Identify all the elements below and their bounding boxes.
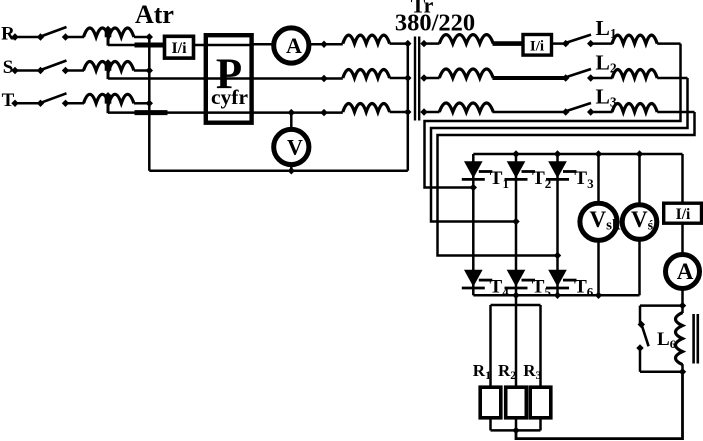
inductor L3 coil [612,104,657,113]
wire load switch lower [639,348,642,372]
wire L2 out [657,77,687,80]
label T6 [574,277,594,300]
node resistor bus bottom [512,427,519,434]
wire sec3 to switch [493,111,566,114]
voltmeter Vsk circle [580,203,621,240]
label R3 [523,361,541,382]
svg-text:V: V [287,135,303,160]
label L3 [596,85,617,110]
node T switch out [62,100,69,107]
wire load switch upper [639,306,642,324]
wire row1 through P box [206,44,252,47]
svg-text:R: R [1,24,15,45]
node sec3 switch out [587,108,594,115]
node T bus junction [146,100,153,107]
label Tr [411,0,434,18]
svg-text:Atr: Atr [135,0,174,29]
wire phase 2 return bus [431,78,688,222]
wire resistor R2 top lead [515,305,518,388]
transformer Tr secondary winding 3 [439,103,493,112]
node bottom rail c2 [512,292,519,299]
switch load blade [642,326,649,346]
svg-text:380/220: 380/220 [395,10,475,37]
wire S input [15,69,41,72]
transformer Tr primary winding 1 [343,35,390,44]
node bridge input 2 [512,218,519,225]
switch sec2 blade [567,69,592,77]
transformer Tr primary winding 2 [343,70,390,79]
wire R wiper thick segment [135,43,166,48]
switch ST blade [42,93,67,102]
wire phase 1 return bus [425,44,681,188]
wire load coil bottom stub [681,364,684,372]
wire I/i to P box [194,44,206,47]
label Atr [135,0,174,29]
inductor Lo core [694,314,698,364]
wire L1 out [657,42,680,45]
transformer Tr secondary winding 2 [439,69,493,78]
resistor R1 box [480,387,501,418]
node load bottom [679,368,686,375]
node secondary 3 start [420,108,427,115]
switch SR blade [42,27,67,36]
wire row1 P to ammeter [252,43,274,46]
current transformer U2 I/i box [523,35,552,56]
wire row3 through P box [206,111,252,114]
node sec2 switch out [587,74,594,81]
wire sec1 stub [424,42,440,45]
node sec3 switch in [562,108,569,115]
wire primary 3 to neutral [390,111,408,114]
wire row1 ammeter to coil [309,43,343,46]
wire R coil end to bus [134,36,149,39]
wire resistor R3 bottom lead [539,417,542,430]
transformer Tr secondary winding 1 [439,35,493,44]
label T5 [532,277,552,300]
inductor Lo coil [676,313,683,365]
label R1 [473,361,491,382]
node sec1 switch out [587,40,594,47]
wire resistor bottom bus [491,429,541,432]
node row1 pre-coil [320,41,327,48]
wire resistor R1 top lead [489,305,492,388]
wire row2 P to coil [252,77,343,80]
thyristor T2 [505,161,536,179]
wire Vs top [638,154,641,205]
Atr wiper arrow R [105,26,112,46]
svg-text:A: A [677,259,694,284]
wire ammeter to load node [681,287,684,306]
switch sec3 blade [567,103,592,111]
node S switch out [62,67,69,74]
wire Vsk top [597,154,600,204]
ammeter A2 circle [666,255,700,289]
wire T wiper to P box [168,111,206,114]
wire resistor R1 bottom lead [489,417,492,430]
wire sec2 stub [424,77,440,80]
node row3 pre-coil [320,109,327,116]
wire T wiper thick segment [135,110,168,115]
phase label T [2,90,15,111]
label T1 [490,168,509,191]
node bridge input 3 [554,252,561,259]
wire I/i to ammeter [681,223,684,256]
wire L3 out [657,111,694,114]
svg-text:R1: R1 [473,361,491,382]
wire resistor top bus [491,304,541,307]
wire phase 3 return bus [438,112,695,256]
wire T wiper out thin [108,111,136,114]
node secondary 1 start [420,40,427,47]
current transformer U1 I/i box [165,36,194,58]
wire top rail to I/i [681,154,684,204]
voltmeter V1 circle [274,129,309,164]
node row3 V tap [288,109,295,116]
transformer Tr core [415,37,419,121]
phase label R [1,24,15,45]
node row2 pre-coil [320,75,327,82]
phase label S [3,57,14,78]
switch sec1 blade [567,35,592,43]
wire bridge column 1 [472,154,475,295]
wire bridge top rail [473,153,682,156]
wire sec2 thick to switch [493,76,566,80]
node T input a [11,100,18,107]
node R switch out [62,33,69,40]
label T3 [574,168,594,191]
thyristor T4 [462,270,493,288]
label L2 [596,51,617,76]
Atr wiper arrow T [105,92,112,113]
ammeter A1 circle [274,28,309,63]
node primary 1 neutral [404,40,411,47]
svg-text:I/i: I/i [171,40,187,57]
wire load top left [640,304,683,307]
label L1 [596,16,617,41]
node S input b [37,67,44,74]
wire primary 2 to neutral [390,77,408,80]
svg-text:T3: T3 [574,168,594,191]
wire sec3 switch to coil [591,111,613,114]
wire sec1 I/i to switch [552,42,566,45]
wire V tap down [290,113,293,130]
inductor L2 coil [612,70,657,79]
wire sec1 thick to I/i [493,41,524,46]
autotransformer Atr winding T [84,94,134,103]
node S bus junction [146,67,153,74]
svg-text:T6: T6 [574,277,594,300]
wire load coil top stub [681,306,684,313]
wire resistor R2 bottom lead [515,417,518,430]
svg-text:R3: R3 [523,361,541,382]
wire Vsk bottom [597,240,600,295]
node S input a [11,67,18,74]
label Lo [657,329,676,351]
wire bridge column 3 [556,154,559,295]
wire Atr neutral bus vertical [148,36,151,171]
wire R wiper out [108,44,136,47]
thyristor T5 [505,270,536,288]
resistor R2 box [506,387,527,418]
node primary 2 neutral [404,74,411,81]
wire bridge bottom rail [473,294,639,297]
node R bus junction [146,33,153,40]
node load top [679,302,686,309]
current transformer U3 I/i box [664,203,702,223]
wire sec2 switch to coil [591,77,613,80]
thyristor T1 [462,161,493,179]
wire T coil end to bus [134,102,149,105]
node top rail c2 [512,150,519,157]
wire Vs bottom [638,239,641,295]
transformer Tr primary winding 3 [343,104,390,113]
node primary 3 neutral [404,108,411,115]
svg-text:L6: L6 [657,329,676,351]
wire load bottom left [640,371,683,374]
node sec1 switch in [562,40,569,47]
voltmeter Vs circle [622,205,657,240]
svg-text:I/i: I/i [530,39,544,55]
wire R to Atr [66,36,85,39]
wire primary 1 to neutral [390,42,408,45]
wire sec1 switch to coil [591,42,613,45]
resistor R3 box [530,387,551,418]
label T4 [490,277,510,300]
wire row3 P to coil [252,111,343,114]
svg-text:S: S [3,57,14,78]
node R input a [11,33,18,40]
switch SS blade [42,61,67,70]
svg-text:R2: R2 [498,361,516,382]
wire S coil end to bus [134,69,149,72]
inductor L1 coil [612,35,657,44]
wire V to neutral line [290,165,293,171]
wire S wiper out [108,77,206,80]
label R2 [498,361,516,382]
wire neutral bottom line [149,170,408,173]
node secondary 2 start [420,74,427,81]
wire T to Atr [66,102,85,105]
node bottom rail Vsk [595,292,602,299]
wire sec3 stub [424,111,440,114]
node V neutral junction [288,167,295,174]
svg-text:cyfr: cyfr [211,85,248,109]
autotransformer Atr winding S [84,62,134,71]
svg-text:T: T [2,90,15,111]
wire bridge out to resistor bus [515,295,518,305]
node top rail c3 [554,150,561,157]
thyristor T6 [546,270,577,288]
node top rail Vsk [595,150,602,157]
Atr wiper arrow S [105,59,112,79]
autotransformer Atr winding R [84,28,134,37]
digital power meter P cyfr box [206,35,252,123]
node top rail Vs [636,150,643,157]
label T2 [532,168,551,191]
wire S to Atr [66,69,85,72]
wire T input [15,102,41,105]
wire bridge column 2 [515,154,518,295]
node sec2 switch in [562,74,569,81]
label 380/220 [395,10,475,37]
wire row2 through P box [206,77,252,80]
svg-text:I/i: I/i [676,206,691,223]
wire load return [516,372,683,439]
node load switch bottom [636,344,643,351]
wire R input [15,36,41,39]
node load switch top [638,321,645,328]
wire resistor R3 top lead [539,305,542,388]
svg-text:A: A [286,33,302,58]
node bottom rail c3 [554,292,561,299]
node bridge input 1 [470,184,477,191]
node T input b [37,100,44,107]
wire Tr primary neutral vertical [407,44,410,171]
thyristor T3 [546,161,577,179]
node R input b [37,33,44,40]
